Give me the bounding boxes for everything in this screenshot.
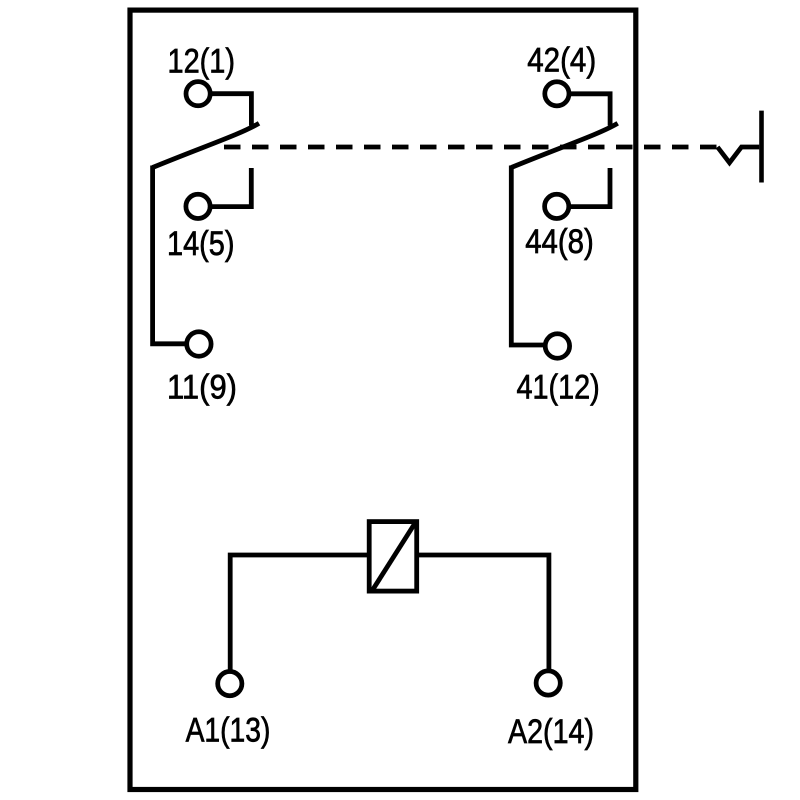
wire from blade to 41(12) <box>511 166 545 346</box>
terminal 41(12) circle <box>545 334 569 358</box>
terminal A1(13) circle <box>218 672 242 696</box>
svg-text:41(12): 41(12) <box>517 369 600 407</box>
svg-text:A1(13): A1(13) <box>186 712 271 750</box>
NO contact 44(8) wire <box>569 168 610 207</box>
svg-text:14(5): 14(5) <box>167 225 235 263</box>
manual actuator notch <box>718 147 760 163</box>
terminal 12(1) circle <box>186 82 210 106</box>
dashed actuating link line <box>224 145 718 150</box>
terminal 44(8) circle <box>545 194 569 218</box>
svg-text:A2(14): A2(14) <box>508 713 594 751</box>
coil K1 <box>369 522 417 592</box>
pole 1 blade <box>153 123 259 167</box>
manual actuator bar <box>759 111 764 183</box>
coil wire A1 to A2 <box>230 555 549 670</box>
pole 2 blade <box>511 123 617 167</box>
svg-text:11(9): 11(9) <box>167 369 237 407</box>
terminal 11(9) circle <box>187 332 211 356</box>
terminal A2(14) circle <box>536 671 560 695</box>
svg-text:44(8): 44(8) <box>525 223 594 261</box>
terminal 14(5) circle <box>186 194 210 218</box>
wire from blade to 11(9) <box>153 166 187 344</box>
wire from 12(1) to blade pivot <box>210 94 251 126</box>
svg-text:42(4): 42(4) <box>527 42 596 80</box>
terminal 42(4) circle <box>545 82 569 106</box>
wire from 42(4) to blade pivot <box>569 94 610 126</box>
NO contact 14(5) wire <box>210 168 251 207</box>
svg-text:12(1): 12(1) <box>168 42 236 80</box>
relay body outline <box>130 10 636 789</box>
coil diagonal <box>372 522 415 590</box>
